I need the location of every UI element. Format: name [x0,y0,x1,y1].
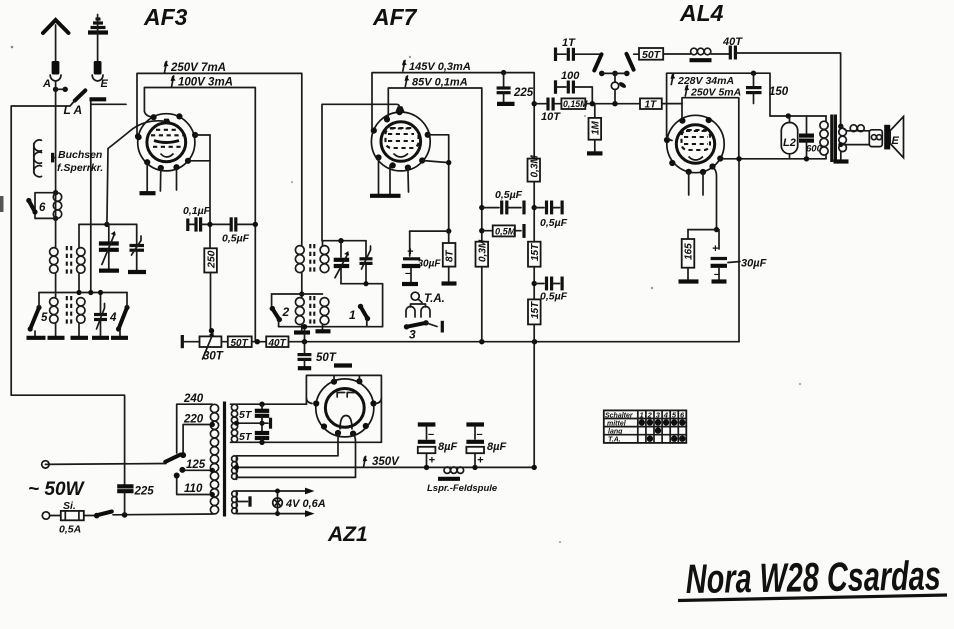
svg-text:5T: 5T [239,409,253,421]
svg-text:4: 4 [663,411,669,420]
svg-text:250: 250 [205,250,217,269]
svg-text:1M: 1M [590,120,601,135]
svg-text:50T: 50T [316,352,337,364]
svg-text:30T: 30T [203,351,224,363]
svg-text:15T: 15T [530,301,541,319]
svg-text:100: 100 [561,70,580,82]
svg-text:4V 0,6A: 4V 0,6A [285,498,326,510]
svg-text:0,3M: 0,3M [529,155,540,178]
svg-text:~ 50W: ~ 50W [28,479,86,500]
svg-text:228V 34mA: 228V 34mA [677,75,734,87]
svg-text:f.Sperrkr.: f.Sperrkr. [57,162,103,174]
svg-text:–: – [428,429,434,441]
svg-text:2: 2 [282,305,290,319]
svg-text:Schalter: Schalter [605,412,634,419]
svg-text:350V: 350V [372,456,400,468]
svg-text:0,5µF: 0,5µF [540,291,568,303]
svg-text:E: E [892,135,900,147]
svg-text:50T: 50T [231,338,249,349]
svg-text:0,5µF: 0,5µF [222,233,250,245]
svg-text:+: + [477,455,484,467]
svg-text:A: A [42,78,51,90]
svg-text:1T: 1T [562,37,576,49]
svg-text:L A: L A [64,103,83,117]
svg-text:5T: 5T [239,431,253,443]
svg-text:AF7: AF7 [372,4,418,30]
svg-text:2: 2 [647,411,653,420]
svg-text:+: + [712,243,719,255]
svg-text:50T: 50T [642,49,662,61]
svg-text:85V 0,1mA: 85V 0,1mA [412,77,468,89]
svg-text:1: 1 [349,308,356,322]
svg-text:165: 165 [684,243,695,260]
svg-text:8T: 8T [445,249,456,262]
svg-text:+: + [429,455,436,467]
svg-text:AF3: AF3 [143,4,188,30]
svg-text:30µF: 30µF [418,259,442,270]
svg-text:Buchsen: Buchsen [58,149,102,161]
svg-text:0,3M: 0,3M [477,239,488,262]
svg-text:250V 7mA: 250V 7mA [170,62,226,74]
svg-text:240: 240 [183,393,204,405]
svg-text:150: 150 [769,86,789,98]
svg-text:30µF: 30µF [741,258,767,270]
svg-text:AL4: AL4 [679,0,724,26]
svg-text:T.A.: T.A. [424,293,445,305]
svg-text:+: + [407,246,414,258]
svg-text:AZ1: AZ1 [327,523,368,546]
svg-text:T.A.: T.A. [608,437,621,444]
svg-text:4: 4 [109,312,117,324]
svg-text:225: 225 [513,87,534,99]
svg-text:225: 225 [134,486,155,498]
svg-text:0,5µF: 0,5µF [540,217,568,229]
svg-text:–: – [477,429,483,441]
svg-text:8µF: 8µF [438,441,457,453]
svg-text:L2: L2 [783,137,796,149]
svg-text:lang: lang [608,429,623,436]
svg-text:5: 5 [41,312,48,324]
svg-text:10T: 10T [541,111,561,123]
svg-text:3: 3 [409,328,416,342]
svg-text:0,5µF: 0,5µF [495,189,523,201]
svg-text:0,5M: 0,5M [495,227,516,237]
svg-text:8µF: 8µF [487,441,506,453]
svg-text:Lspr.-Feldspule: Lspr.-Feldspule [427,483,498,494]
svg-text:6: 6 [39,202,46,214]
svg-text:0,15M: 0,15M [563,99,588,109]
svg-text:0,5A: 0,5A [59,524,81,536]
svg-text:0,1µF: 0,1µF [183,205,211,217]
svg-text:40T: 40T [722,36,743,48]
svg-text:15T: 15T [530,243,541,261]
svg-text:145V 0,3mA: 145V 0,3mA [409,61,471,73]
svg-text:40T: 40T [268,338,287,349]
svg-text:110: 110 [184,483,203,495]
svg-text:mittel: mittel [607,420,627,427]
svg-text:125: 125 [186,459,206,471]
svg-text:250V 5mA: 250V 5mA [690,87,741,99]
svg-text:1T: 1T [645,99,658,110]
svg-text:E: E [101,78,109,90]
svg-text:1: 1 [640,411,644,420]
